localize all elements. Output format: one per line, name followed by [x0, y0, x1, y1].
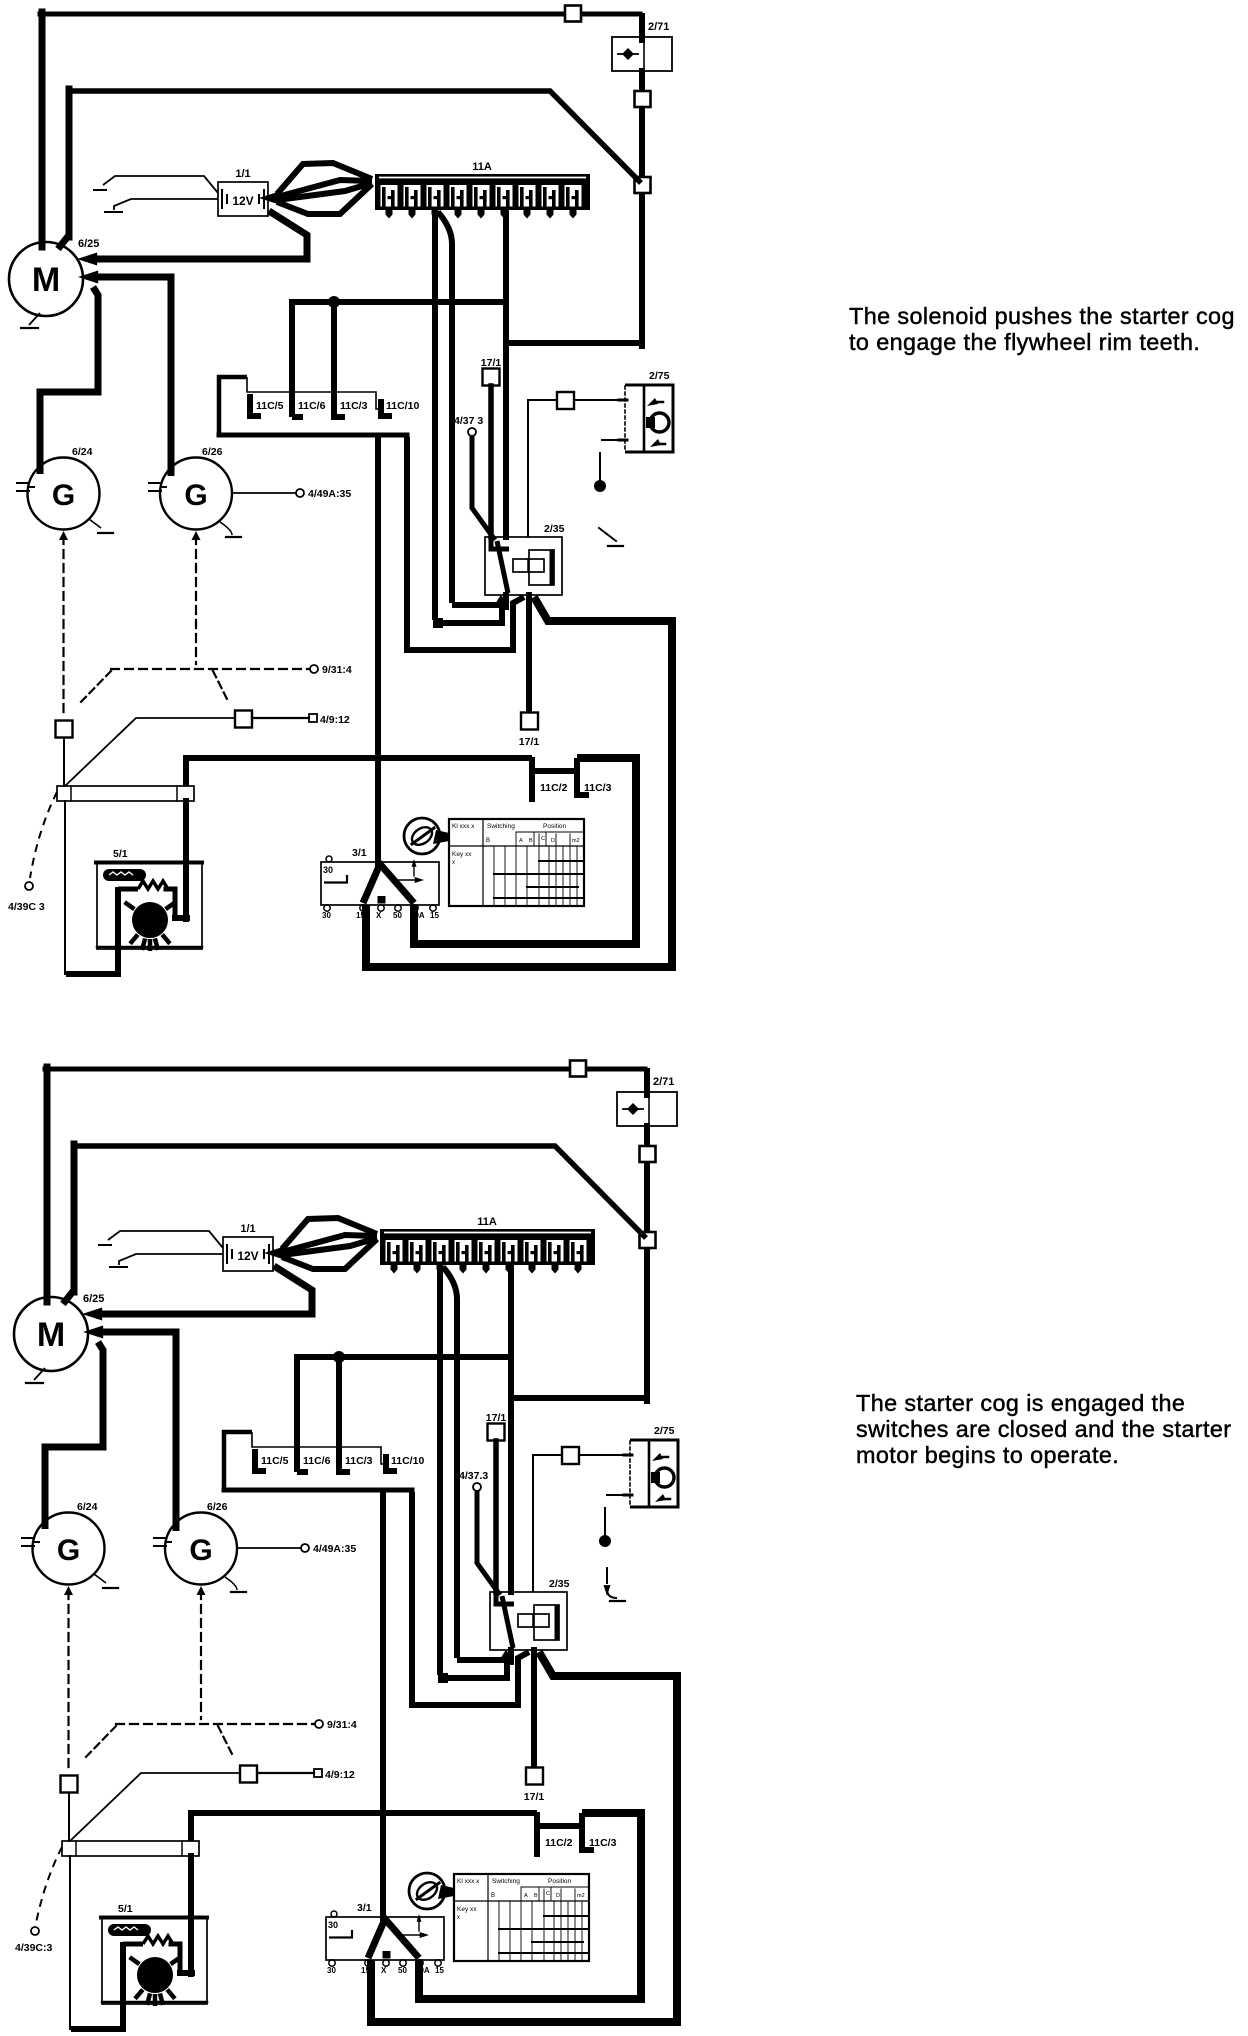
wire battery to starter: [101, 1266, 312, 1314]
svg-text:17/1: 17/1: [524, 1791, 545, 1803]
gear position node: [600, 1536, 611, 1547]
lead to 4/39C:3: [30, 792, 57, 878]
terminal 4/9:12: [309, 714, 317, 722]
relay 2/35 contact box: [529, 550, 554, 585]
label 3/1: [357, 1902, 372, 1914]
svg-text:11C/6: 11C/6: [298, 400, 326, 412]
wire 2/75 lower pin: [607, 1494, 630, 1496]
label 9/31:4: [322, 664, 352, 676]
svg-text:30: 30: [328, 1920, 338, 1930]
dashed wire generator 6/24: [64, 1586, 73, 1768]
svg-text:30: 30: [327, 1966, 336, 1975]
label 2/71: [648, 21, 669, 33]
lamp unit 5/1 box: [101, 1917, 207, 2004]
bulb 5/1: [130, 1957, 181, 2006]
fuse wire ignition feed: [503, 212, 509, 537]
svg-text:50: 50: [393, 911, 402, 920]
ground generator 6/26: [225, 1577, 246, 1592]
terminal block: [62, 1841, 199, 1856]
wire right vertical to relay feed: [511, 1398, 650, 1592]
pin 11C/6 hook: [292, 414, 303, 420]
wire bulb to terminal loop: [71, 1942, 143, 2029]
relay 2/35 contact box: [534, 1605, 559, 1640]
connector strip 11C outline: [224, 1432, 386, 1488]
svg-text:6/25: 6/25: [78, 238, 99, 250]
pin 11C/3 hook: [334, 414, 345, 420]
ground generator 6/24: [94, 1574, 118, 1588]
label 4/49A:35: [308, 488, 351, 500]
svg-text:11C/3: 11C/3: [584, 782, 612, 794]
label 17/1 upper: [481, 357, 502, 369]
pin 11C/2: [529, 760, 535, 799]
wire connector to terminal block: [63, 738, 65, 786]
label 4/39C:3: [8, 901, 45, 913]
svg-text:A: A: [524, 1893, 528, 1899]
label 4/37:3: [454, 415, 483, 427]
terminal 4/39C:3: [31, 1927, 39, 1935]
connector strip 11C outline: [219, 377, 381, 433]
svg-text:B: B: [491, 1893, 495, 1899]
battery 1/1: [223, 1237, 273, 1271]
wire 11C to relay (stepped): [412, 1492, 529, 1705]
ground starter motor: [26, 1368, 45, 1383]
ignition switch contact arm: [368, 1919, 419, 1959]
svg-text:C: C: [546, 1891, 550, 1897]
wire 2/71 down right side: [644, 1126, 650, 1401]
wire generator 6/26 to 4/49A:35: [232, 492, 295, 494]
svg-text:2/71: 2/71: [648, 21, 669, 33]
svg-text:5/1: 5/1: [118, 1903, 133, 1915]
svg-text:11C/5: 11C/5: [261, 1455, 289, 1467]
ignition switch arrow: [393, 859, 424, 883]
label 11C/3: [345, 1455, 373, 1467]
ignition switch top pin: [326, 856, 332, 862]
label 5/1: [113, 848, 128, 860]
terminal 9/31:4: [315, 1720, 323, 1728]
bridge 11C/2-11C/3: [532, 768, 577, 774]
svg-text:2/35: 2/35: [549, 1578, 570, 1590]
wire starter to generator 6/26 arrowhead: [83, 1326, 103, 1339]
label 3/1: [352, 847, 367, 859]
bulb 5/1: [125, 902, 176, 951]
relay 2/35 internal wire: [491, 539, 509, 593]
generator G 6/24: [28, 458, 100, 530]
wire generator 6/26 to 4/49A:35: [237, 1547, 300, 1549]
relay 2/35 contact bar: [550, 553, 555, 583]
wire starter-motor to top rail: [40, 12, 640, 247]
terminal block: [57, 786, 194, 801]
connector on top rail: [570, 1061, 586, 1077]
fuse box 11A: [375, 174, 590, 219]
ignition key: [409, 1873, 454, 1909]
wire starter-motor second cable: [63, 1144, 646, 1304]
svg-text:Switching: Switching: [492, 1878, 520, 1885]
connector 17/1 upper: [488, 1424, 505, 1441]
dashed wire generator 6/26: [192, 531, 201, 664]
svg-text:12V: 12V: [232, 194, 253, 208]
wire relay to 17/1 lower: [531, 1650, 537, 1767]
svg-text:50A: 50A: [415, 1966, 430, 1975]
svg-text:11C/3: 11C/3: [589, 1837, 617, 1849]
wire 4/37 to relay: [477, 1491, 500, 1595]
terminal 4/37:3: [473, 1483, 481, 1491]
svg-text:2/75: 2/75: [649, 370, 670, 382]
label 11A: [472, 161, 492, 173]
svg-text:6/26: 6/26: [207, 1501, 228, 1513]
svg-text:17/1: 17/1: [481, 357, 502, 369]
fuse wire to relay pin (left): [433, 212, 502, 628]
svg-text:50: 50: [398, 1966, 407, 1975]
connector at diagonal junction: [640, 1232, 656, 1248]
label 6/26: [207, 1501, 228, 1513]
ignition position table: [449, 819, 584, 906]
terminal 4/49A:35: [301, 1544, 309, 1552]
svg-text:17/1: 17/1: [519, 736, 540, 748]
label 11C/3: [340, 400, 368, 412]
svg-text:1/1: 1/1: [235, 168, 250, 180]
pin 11C/3 lower: [582, 1813, 594, 1850]
svg-text:4/37 3: 4/37 3: [454, 415, 483, 427]
svg-text:15: 15: [435, 1966, 444, 1975]
caption upper diagram: [849, 303, 1248, 355]
wire terminal block to bulb 5/1: [188, 1856, 194, 1974]
wire relay to 2/75: [528, 400, 556, 537]
svg-text:11C/2: 11C/2: [540, 782, 568, 794]
pin 11C/5: [250, 394, 261, 416]
svg-text:D: D: [556, 1893, 560, 1899]
svg-text:11A: 11A: [477, 1216, 497, 1228]
label 2/71: [653, 1076, 674, 1088]
dashed branch to connector: [83, 1726, 116, 1760]
ignition switch top pin: [331, 1911, 337, 1917]
wire bulb to terminal loop: [66, 887, 138, 974]
svg-text:11C/3: 11C/3: [345, 1455, 373, 1467]
wire battery to starter arrowhead: [82, 1308, 102, 1321]
svg-text:G: G: [189, 1534, 212, 1567]
wire terminal block to 11C/2: [191, 1813, 537, 1841]
svg-text:11C/6: 11C/6: [303, 1455, 331, 1467]
svg-text:11A: 11A: [472, 161, 492, 173]
svg-text:9/31:4: 9/31:4: [327, 1719, 357, 1731]
battery 1/1: [218, 182, 268, 216]
svg-text:Position: Position: [543, 823, 567, 830]
wire ignition switch inner loop: [419, 1813, 641, 1999]
fuse wire ignition feed: [508, 1267, 514, 1592]
label 5/1: [118, 1903, 133, 1915]
ignition position table: [454, 1874, 589, 1961]
svg-text:50A: 50A: [410, 911, 425, 920]
svg-text:6/26: 6/26: [202, 446, 223, 458]
svg-text:Switching: Switching: [487, 823, 515, 830]
battery sense wire upper: [99, 1231, 223, 1248]
lower wiring diagram: starter motor operating: [14, 1061, 678, 2030]
gear position node: [595, 481, 606, 492]
wire 11C to ignition switch 3/1: [380, 1492, 386, 1919]
dashed branch to 4/9 connector: [218, 1726, 234, 1758]
wire starter to generator 6/26: [97, 277, 171, 476]
svg-text:11C/2: 11C/2: [545, 1837, 573, 1849]
generator 6/26 terminal: [154, 1538, 171, 1546]
relay 2/35 coil: [513, 559, 544, 572]
connector on 2/75 wire: [557, 392, 574, 409]
label 11C/5: [261, 1455, 289, 1467]
bridge 11C/2-11C/3: [537, 1823, 582, 1829]
junction node: [334, 1352, 345, 1363]
wire top rail down to 2/71: [644, 1071, 650, 1095]
svg-text:B: B: [529, 838, 533, 844]
generator G 6/26: [160, 458, 232, 530]
connector on right vertical: [635, 91, 651, 107]
ignition switch arrow: [398, 1914, 429, 1938]
lamp unit label plate: [108, 1924, 151, 1936]
pin 11C/10: [386, 1454, 397, 1471]
svg-text:11C/5: 11C/5: [256, 400, 284, 412]
battery sense wire lower: [105, 199, 218, 212]
generator G 6/24: [33, 1513, 105, 1585]
svg-text:11C/10: 11C/10: [386, 400, 419, 412]
label 11C/5: [256, 400, 284, 412]
svg-text:4/9:12: 4/9:12: [320, 714, 350, 726]
fuse wire to relay pin (left): [438, 1267, 507, 1683]
label 6/25: [78, 238, 99, 250]
label 11C/3 lower: [584, 782, 612, 794]
connector strip 11C bottom: [224, 1488, 412, 1493]
label 11C/2: [540, 782, 568, 794]
svg-text:B: B: [534, 1893, 538, 1899]
wire ignition switch inner loop: [414, 758, 636, 944]
svg-text:11C/10: 11C/10: [391, 1455, 424, 1467]
ignition switch 3/1 box: [326, 1917, 444, 1960]
starter motor M 6/25: [9, 242, 83, 316]
dashed wire to 9/31:4: [111, 668, 309, 670]
generator 6/26 terminal: [149, 483, 166, 491]
label 4/37:3: [459, 1470, 488, 1482]
svg-text:11C/3: 11C/3: [340, 400, 368, 412]
ignition switch pin labels: [322, 911, 439, 920]
wire starter-motor to top rail: [45, 1067, 645, 1302]
svg-text:Position: Position: [548, 1878, 572, 1885]
ignition key: [404, 818, 449, 854]
svg-text:G: G: [52, 479, 75, 512]
label 11C/3 lower: [589, 1837, 617, 1849]
svg-text:G: G: [184, 479, 207, 512]
wire relay to ignition switch (outer loop): [366, 597, 672, 967]
label 4/39C:3: [15, 1942, 53, 1954]
wire loop to terminal block: [69, 1856, 71, 2029]
pin 11C/3 hook: [339, 1469, 350, 1475]
wire to connector 11C/6: [292, 302, 504, 417]
relay 2/35 coil: [518, 1614, 549, 1627]
ground generator 6/26: [220, 522, 241, 537]
svg-text:Key xx: Key xx: [452, 851, 472, 858]
svg-text:30: 30: [323, 865, 333, 875]
svg-text:A: A: [519, 838, 523, 844]
fuse wire to relay pin (curved): [438, 212, 503, 605]
svg-text:X: X: [381, 1966, 387, 1975]
terminal 4/49A:35: [296, 489, 304, 497]
wire 4/37 to relay: [472, 436, 495, 540]
svg-text:4/37.3: 4/37.3: [459, 1470, 488, 1482]
connector 17/1 upper: [483, 369, 500, 386]
relay 2/35 internal wire: [496, 1594, 514, 1648]
pin 11C/3 lower: [577, 758, 589, 795]
svg-text:4/49A:35: 4/49A:35: [308, 488, 351, 500]
wire to gear position node: [599, 453, 601, 480]
wire to 4/9:12 terminal: [252, 717, 309, 719]
svg-text:x: x: [457, 1915, 460, 1921]
generator G 6/26: [165, 1513, 237, 1585]
svg-text:M: M: [37, 1316, 65, 1354]
in-line fuse 2/71: [612, 37, 672, 71]
svg-text:6/25: 6/25: [83, 1293, 104, 1305]
wire starter to generator 6/24: [45, 1342, 103, 1529]
ignition switch contact arm: [363, 864, 414, 904]
connector at diagonal junction: [635, 177, 651, 193]
wire right vertical to relay feed: [506, 343, 645, 537]
terminal 4/9:12: [314, 1769, 322, 1777]
wire terminal block to 4/9:12: [65, 718, 234, 786]
ignition switch pins: [329, 1960, 441, 1966]
svg-text:15: 15: [361, 1966, 370, 1975]
lamp unit 5/1 box: [96, 862, 202, 949]
ignition switch pins: [324, 905, 436, 911]
svg-text:4/9:12: 4/9:12: [325, 1769, 355, 1781]
ignition switch 3/1 box: [321, 862, 439, 905]
svg-text:x: x: [452, 860, 455, 866]
ground generator 6/24: [89, 519, 113, 533]
wire 2/71 down right side: [639, 71, 645, 346]
svg-text:2/71: 2/71: [653, 1076, 674, 1088]
wire top rail down to 2/71: [639, 16, 645, 40]
connector on 6/24 dashed wire: [56, 721, 73, 738]
dashed wire generator 6/24: [59, 531, 68, 713]
switch unit 2/75: [624, 1440, 678, 1507]
label 11C/10: [391, 1455, 424, 1467]
connector on right vertical: [640, 1146, 656, 1162]
svg-text:5/1: 5/1: [113, 848, 128, 860]
dashed branch to connector: [78, 671, 111, 705]
svg-text:D: D: [551, 838, 555, 844]
label 2/75: [654, 1425, 675, 1437]
generator 6/24 terminal: [22, 1538, 39, 1546]
connector on 2/75 wire: [562, 1447, 579, 1464]
svg-text:2/75: 2/75: [654, 1425, 675, 1437]
label 2/35: [549, 1578, 570, 1590]
connector strip 11C bottom: [219, 433, 407, 438]
label 17/1 lower: [519, 736, 540, 748]
battery sense wire lower: [110, 1254, 223, 1267]
wire to connector 11C/3: [331, 304, 337, 417]
svg-text:Kl xxx x: Kl xxx x: [452, 823, 475, 830]
svg-text:3/1: 3/1: [352, 847, 367, 859]
ignition switch 30 label: [328, 1920, 352, 1938]
svg-text:4/49A:35: 4/49A:35: [313, 1543, 356, 1555]
label 4/9:12: [325, 1769, 355, 1781]
wire connector to 2/75: [574, 399, 625, 401]
pin 11C/10: [381, 399, 392, 416]
neutral switch (closed): [604, 1568, 626, 1601]
connector on 6/24 dashed wire: [61, 1776, 78, 1793]
wire connector to terminal block: [68, 1793, 70, 1841]
switch unit 2/75: [619, 385, 673, 452]
wire loop to terminal block: [64, 801, 66, 974]
label 1/1: [240, 1223, 255, 1235]
relay 2/35 contact bar: [555, 1608, 560, 1638]
label 2/75: [649, 370, 670, 382]
caption lower diagram: [856, 1390, 1248, 1468]
terminal 4/37:3: [468, 428, 476, 436]
wire to gear position node: [604, 1508, 606, 1535]
connector on 4/9:12 wire: [235, 711, 252, 728]
wire to connector 11C/3: [336, 1359, 342, 1472]
label 1/1: [235, 168, 250, 180]
lead to 4/39C:3: [36, 1847, 62, 1923]
wire to 4/9:12 terminal: [257, 1772, 314, 1774]
wire starter-motor second cable: [58, 89, 641, 249]
connector on top rail: [565, 6, 581, 22]
generator 6/24 terminal: [17, 483, 34, 491]
svg-text:4/39C:3: 4/39C:3: [15, 1942, 53, 1954]
svg-text:3/1: 3/1: [357, 1902, 372, 1914]
svg-text:15: 15: [356, 911, 365, 920]
label 11C/6: [298, 400, 326, 412]
ground starter motor: [21, 313, 40, 328]
wire terminal block to bulb 5/1: [183, 801, 189, 919]
wire starter to generator 6/26 arrowhead: [78, 271, 98, 284]
label 2/35: [544, 523, 565, 535]
svg-text:30: 30: [322, 911, 331, 920]
bulb filament frame: [138, 881, 187, 918]
pin 11C/6 hook: [297, 1469, 308, 1475]
in-line fuse 2/71: [617, 1092, 677, 1126]
wire 17/1 to relay: [488, 386, 494, 537]
connector on 4/9:12 wire: [240, 1766, 257, 1783]
svg-text:2/35: 2/35: [544, 523, 565, 535]
svg-text:9/31:4: 9/31:4: [322, 664, 352, 676]
dashed wire to 9/31:4: [116, 1723, 314, 1725]
label 17/1 upper: [486, 1412, 507, 1424]
terminal 9/31:4: [310, 665, 318, 673]
svg-text:Kl xxx x: Kl xxx x: [457, 1878, 480, 1885]
label 6/25: [83, 1293, 104, 1305]
label 11C/2: [545, 1837, 573, 1849]
wire battery to starter: [96, 211, 307, 259]
svg-text:C: C: [541, 836, 545, 842]
svg-text:15: 15: [430, 911, 439, 920]
svg-text:X: X: [376, 911, 382, 920]
relay pin stub: [503, 595, 509, 607]
wire terminal block to 4/9:12: [70, 1773, 239, 1841]
wire battery to starter arrowhead: [77, 253, 97, 266]
wire relay to 2/75: [533, 1455, 561, 1592]
wire 2/75 lower pin: [602, 439, 625, 441]
svg-text:m2: m2: [572, 838, 580, 844]
svg-text:1/1: 1/1: [240, 1223, 255, 1235]
svg-text:m2: m2: [577, 1893, 585, 1899]
relay 2/35 body: [485, 537, 562, 595]
upper wiring diagram: solenoid engages starter cog: [8, 6, 673, 975]
dashed branch to 4/9 connector: [213, 671, 229, 703]
bulb filament frame: [143, 1936, 192, 1973]
svg-text:M: M: [32, 261, 60, 299]
battery cable braid: [259, 163, 372, 214]
pin 11C/5: [255, 1449, 266, 1471]
label 6/24: [77, 1501, 98, 1513]
label 11A: [477, 1216, 497, 1228]
label 6/24: [72, 446, 93, 458]
svg-text:Key xx: Key xx: [457, 1906, 477, 1913]
wire to connector 11C/6: [297, 1357, 509, 1472]
